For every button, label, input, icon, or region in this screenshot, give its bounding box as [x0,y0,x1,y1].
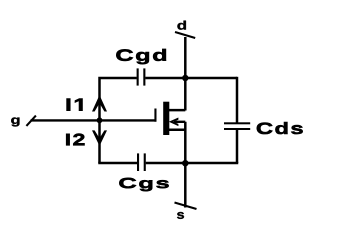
terminal slash d [175,32,195,38]
capacitor Cds plates [224,122,250,130]
label I2 [66,134,84,146]
arrowhead I2 down [92,130,107,146]
junction node source [182,160,189,167]
label g [11,117,19,126]
terminal slash g [26,116,36,126]
transistor M1 body arrowhead [169,118,179,127]
transistor M1 source stub [168,129,185,132]
capacitor Cgs plates [137,153,146,171]
wire bottom-right segment (corner to Cgs right plate) [146,162,239,165]
wire right lower segment (Cds bottom plate to bottom-right corner) [236,130,239,164]
transistor M1 gate plate [154,109,156,122]
terminal slash s [175,203,197,210]
arrowhead I1 up [92,95,107,112]
label I1 [67,99,83,111]
junction node drain [182,75,189,82]
wire right upper segment (corner down to Cds top plate) [236,77,239,123]
wire gate lead (terminal g to gate plate) [31,119,157,121]
wire source vertical (body line down to terminal s) [184,122,187,208]
label Cgd [116,49,166,64]
transistor M1 channel bar [163,102,169,135]
wire bottom-left segment (Cgs left plate to bottom-left corner) [98,162,137,165]
junction node gate branch [97,117,103,123]
capacitor Cgd plates [137,68,146,85]
wire drain vertical (terminal d down to drain stub) [184,37,187,111]
wire top-right segment (Cgd right plate to top-right corner) [145,77,237,80]
wire top-left segment (gate branch corner to Cgd left plate) [100,78,137,163]
transistor M1 body arrow line [174,121,186,123]
transistor M1 drain stub [168,109,185,112]
label Cgs [119,178,168,191]
label d [177,21,186,30]
label Cds [257,122,303,134]
label s [177,212,184,219]
